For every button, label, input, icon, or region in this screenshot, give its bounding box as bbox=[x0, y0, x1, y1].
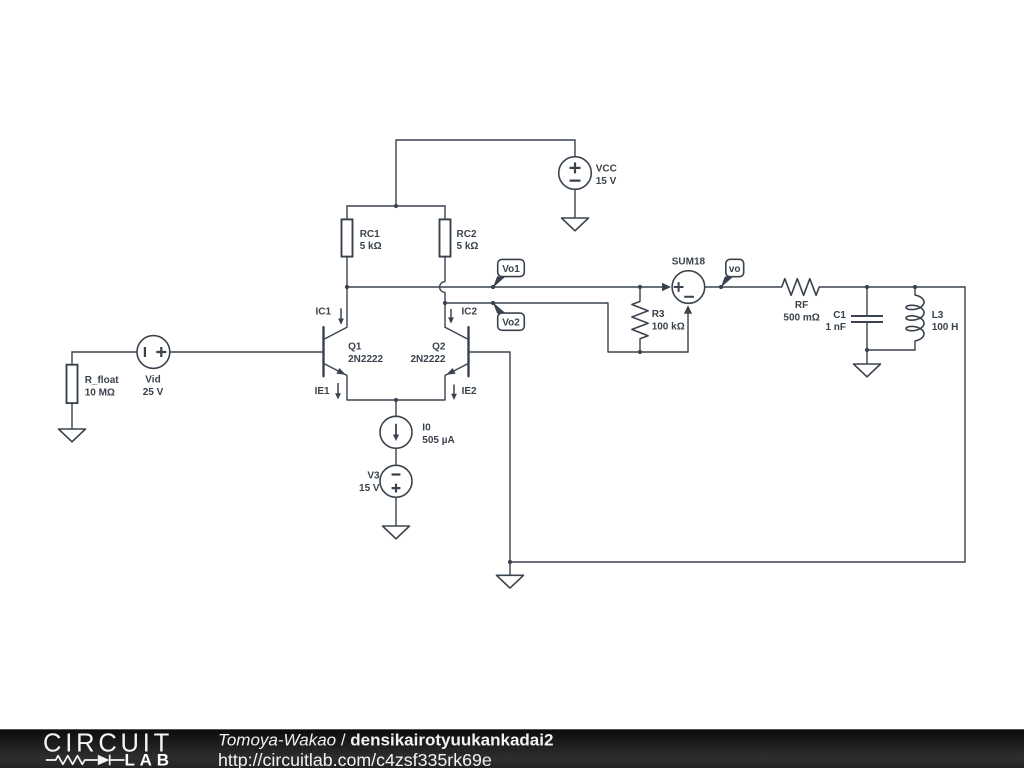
ground VCC bbox=[562, 218, 589, 231]
svg-text:Q2: Q2 bbox=[432, 342, 446, 353]
svg-text:IE1: IE1 bbox=[315, 386, 330, 397]
svg-text:100 kΩ: 100 kΩ bbox=[652, 321, 685, 332]
wire Vid left bbox=[72, 351, 137, 353]
ground R_float bbox=[59, 429, 86, 442]
transistor Q2 bbox=[467, 327, 469, 376]
svg-text:R3: R3 bbox=[652, 309, 665, 320]
svg-text:Q1: Q1 bbox=[348, 342, 362, 353]
node junction (640,352) bbox=[638, 350, 642, 354]
wire R_float bottom lead bbox=[71, 403, 73, 429]
svg-text:Tomoya-Wakao / densikairotyuuk: Tomoya-Wakao / densikairotyuukankadai2 bbox=[218, 730, 553, 749]
wire feedback bottom horizontal bbox=[510, 561, 965, 563]
wire RF to feedback corner bbox=[819, 286, 965, 288]
wire C1-L3 bottom bbox=[867, 349, 915, 351]
svg-text:100 H: 100 H bbox=[932, 322, 959, 333]
svg-text:L3: L3 bbox=[932, 310, 944, 321]
wire Vo1 net horizontal bbox=[347, 286, 663, 288]
svg-text:2N2222: 2N2222 bbox=[410, 354, 445, 365]
capacitor C1 bbox=[851, 316, 883, 322]
svg-text:SUM18: SUM18 bbox=[672, 256, 706, 267]
node junction (915,287) bbox=[913, 285, 917, 289]
svg-text:I0: I0 bbox=[422, 422, 431, 433]
ground C1 bbox=[854, 364, 881, 377]
svg-text:15 V: 15 V bbox=[596, 176, 617, 187]
svg-text:vo: vo bbox=[729, 264, 741, 275]
wire Q1 emitter bbox=[324, 363, 397, 400]
svg-text:RC2: RC2 bbox=[457, 229, 477, 240]
svg-text:RC1: RC1 bbox=[360, 229, 380, 240]
svg-text:Vid: Vid bbox=[145, 375, 160, 386]
svg-text:1 nF: 1 nF bbox=[825, 322, 846, 333]
op-amp SUM18 summing block bbox=[662, 283, 671, 291]
transistor Q1 bbox=[322, 327, 324, 376]
resistor RF bbox=[782, 279, 820, 296]
node junction (445,303) bbox=[443, 301, 447, 305]
node junction (396,206) bbox=[394, 204, 398, 208]
node junction (396,400) bbox=[394, 398, 398, 402]
node junction (721,287) bbox=[719, 285, 723, 289]
voltage source V3 bbox=[380, 465, 412, 497]
svg-text:505 µA: 505 µA bbox=[422, 435, 454, 446]
node junction (640,287) bbox=[638, 285, 642, 289]
wire Q1 collector bbox=[324, 287, 348, 340]
current label IE1 bbox=[337, 383, 339, 394]
wire RC1 bottom lead bbox=[346, 257, 348, 287]
svg-text:VCC: VCC bbox=[596, 163, 617, 174]
ground bottom node bbox=[497, 575, 524, 588]
wire Q2 emitter bbox=[396, 363, 469, 400]
svg-text:IC1: IC1 bbox=[316, 306, 332, 317]
voltage source VCC bbox=[559, 157, 592, 190]
wire RC2 bottom / Q2 collector with hop bbox=[440, 257, 445, 328]
svg-text:10 MΩ: 10 MΩ bbox=[85, 387, 115, 398]
wire Q2 collector diagonal bbox=[445, 327, 469, 339]
node Vo2 flag bbox=[493, 302, 506, 313]
current label IC2 bbox=[450, 309, 452, 318]
resistor RC2 bbox=[440, 219, 451, 256]
svg-text:2N2222: 2N2222 bbox=[348, 354, 383, 365]
node junction (510,562) bbox=[508, 560, 512, 564]
wire ground lead bottom node bbox=[509, 562, 511, 575]
node junction (493,303) bbox=[491, 301, 495, 305]
wire VCC top rail bbox=[396, 140, 575, 206]
svg-text:5 kΩ: 5 kΩ bbox=[360, 241, 382, 252]
wire L3 top lead bbox=[914, 287, 916, 295]
svg-text:V3: V3 bbox=[367, 470, 380, 481]
svg-text:Vo2: Vo2 bbox=[502, 318, 520, 329]
inductor L3 bbox=[906, 295, 924, 341]
wire feedback up to Q2 base bbox=[469, 352, 511, 562]
svg-text:IE2: IE2 bbox=[462, 386, 477, 397]
wire I0 to V3 bbox=[395, 448, 397, 465]
svg-text:C1: C1 bbox=[833, 310, 846, 321]
wire feedback right vertical bbox=[964, 287, 966, 562]
resistor RC1 bbox=[342, 219, 353, 256]
wire Vid to Q1 base bbox=[170, 351, 323, 353]
wire R_float top lead bbox=[71, 352, 73, 365]
wire R3 bottom lead bbox=[639, 339, 641, 352]
ground V3 bbox=[383, 526, 410, 539]
wire RC2 top lead bbox=[444, 206, 446, 219]
svg-text:LAB: LAB bbox=[125, 751, 174, 768]
wire V3 bottom lead bbox=[395, 497, 397, 526]
svg-text:http://circuitlab.com/c4zsf335: http://circuitlab.com/c4zsf335rk69e bbox=[218, 750, 492, 768]
svg-text:15 V: 15 V bbox=[359, 483, 380, 494]
svg-text:R_float: R_float bbox=[85, 375, 120, 386]
current source I0 bbox=[380, 416, 412, 448]
svg-text:500 mΩ: 500 mΩ bbox=[783, 312, 819, 323]
wire RC1 top lead bbox=[346, 206, 348, 219]
wire I0 top lead bbox=[395, 400, 397, 416]
wire SUM18 output bbox=[705, 286, 782, 288]
wire R3 top lead bbox=[639, 287, 641, 301]
wire C1 ground lead bbox=[866, 350, 868, 364]
node junction (867,287) bbox=[865, 285, 869, 289]
svg-text:Vo1: Vo1 bbox=[502, 264, 520, 275]
wire RC1-RC2 bridge bbox=[347, 205, 445, 207]
svg-text:RF: RF bbox=[795, 300, 808, 311]
svg-text:IC2: IC2 bbox=[462, 306, 478, 317]
node Vo1 flag bbox=[493, 276, 506, 288]
resistor R_float bbox=[67, 365, 78, 403]
wire SUM18 lower input bbox=[687, 312, 689, 352]
wire Vo2 net bbox=[445, 303, 688, 352]
node junction (867,350) bbox=[865, 348, 869, 352]
current label IE2 bbox=[453, 385, 455, 395]
svg-text:25 V: 25 V bbox=[143, 387, 164, 398]
current label IC1 bbox=[340, 308, 342, 319]
wire C1 bottom lead bbox=[866, 322, 868, 350]
voltage source Vid bbox=[137, 336, 170, 369]
svg-text:5 kΩ: 5 kΩ bbox=[457, 241, 479, 252]
node vo flag bbox=[721, 276, 733, 287]
wire VCC bottom lead bbox=[574, 189, 576, 218]
node junction (493,287) bbox=[491, 285, 495, 289]
wire L3 bottom lead bbox=[914, 341, 916, 350]
wire C1 top lead bbox=[866, 287, 868, 316]
node junction (347,287) bbox=[345, 285, 349, 289]
resistor R3 bbox=[632, 301, 648, 338]
